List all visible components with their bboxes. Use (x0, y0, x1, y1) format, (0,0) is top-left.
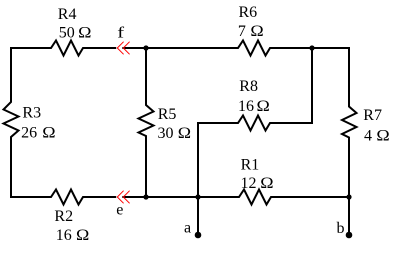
svg-text:4: 4 (364, 127, 372, 144)
svg-text:R1: R1 (241, 157, 260, 174)
svg-text:R3: R3 (22, 105, 41, 122)
svg-text:R2: R2 (54, 208, 73, 225)
svg-text:Ω: Ω (76, 226, 89, 244)
svg-text:R5: R5 (158, 106, 177, 123)
svg-text:Ω: Ω (376, 126, 389, 144)
svg-text:R8: R8 (239, 78, 258, 95)
svg-text:7: 7 (238, 23, 246, 40)
svg-text:Ω: Ω (78, 23, 91, 41)
svg-text:16: 16 (56, 227, 72, 244)
svg-text:Ω: Ω (178, 124, 191, 142)
svg-text:R4: R4 (58, 6, 77, 23)
svg-text:Ω: Ω (260, 174, 273, 192)
svg-text:e: e (116, 201, 123, 218)
svg-text:f: f (117, 23, 125, 40)
svg-text:R6: R6 (239, 4, 258, 21)
svg-text:a: a (184, 219, 191, 236)
svg-text:Ω: Ω (257, 97, 270, 115)
svg-text:b: b (337, 220, 345, 237)
svg-text:Ω: Ω (42, 123, 55, 141)
svg-text:26: 26 (21, 125, 37, 142)
svg-text:R7: R7 (363, 107, 382, 124)
svg-text:50: 50 (59, 24, 75, 41)
svg-text:Ω: Ω (250, 22, 263, 40)
svg-text:12: 12 (241, 175, 257, 192)
svg-text:16: 16 (238, 98, 254, 115)
svg-text:30: 30 (158, 125, 174, 142)
